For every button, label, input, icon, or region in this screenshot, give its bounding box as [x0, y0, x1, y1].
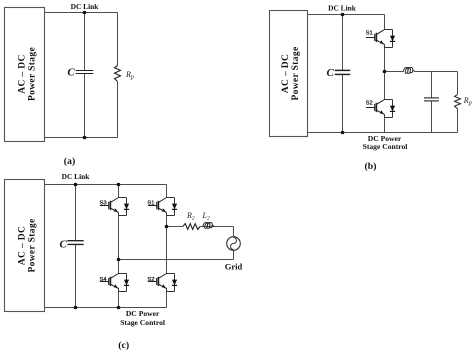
svg-text:C: C	[67, 66, 75, 78]
svg-text:C: C	[60, 238, 68, 250]
svg-text:DC Link: DC Link	[71, 2, 100, 11]
svg-text:S1: S1	[366, 31, 373, 37]
svg-text:Power Stage: Power Stage	[291, 46, 301, 100]
svg-text:AC – DC: AC – DC	[17, 54, 27, 93]
svg-text:Grid: Grid	[225, 261, 243, 271]
svg-text:DC Link: DC Link	[328, 3, 357, 12]
svg-text:DC Link: DC Link	[62, 172, 91, 181]
svg-text:(c): (c)	[118, 340, 129, 351]
svg-text:S2: S2	[366, 100, 373, 106]
svg-text:AC – DC: AC – DC	[281, 54, 291, 93]
svg-text:S2: S2	[147, 277, 154, 283]
svg-text:Stage Control: Stage Control	[120, 318, 165, 327]
svg-text:(b): (b)	[365, 161, 377, 172]
svg-text:S3: S3	[100, 200, 107, 206]
svg-text:Rp: Rp	[463, 96, 472, 107]
svg-text:C: C	[327, 67, 335, 79]
svg-text:S1: S1	[147, 200, 154, 206]
svg-text:L2: L2	[202, 211, 210, 222]
svg-text:S4: S4	[100, 277, 108, 283]
svg-text:Stage Control: Stage Control	[363, 142, 408, 151]
svg-text:Power Stage: Power Stage	[28, 218, 38, 272]
svg-text:DC Power: DC Power	[126, 309, 160, 318]
svg-text:AC – DC: AC – DC	[17, 226, 27, 265]
svg-text:Power Stage: Power Stage	[28, 47, 38, 101]
svg-text:Rp: Rp	[125, 70, 134, 81]
svg-text:R2: R2	[186, 211, 195, 222]
svg-text:(a): (a)	[64, 156, 75, 167]
